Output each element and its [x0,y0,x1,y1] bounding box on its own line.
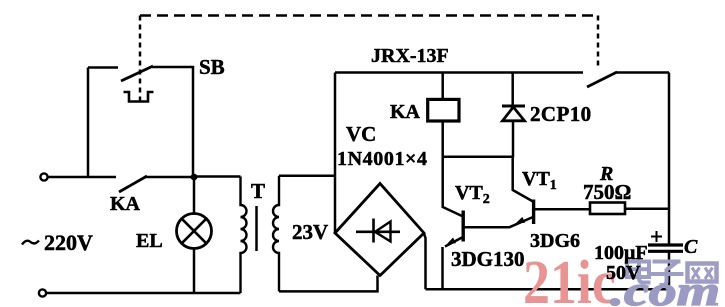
svg-text:100μF: 100μF [594,242,648,264]
wire to VT2 collector [443,157,462,216]
svg-text:C: C [684,236,698,258]
svg-text:220V: 220V [44,230,93,255]
watermark dian zi wang characters [627,256,717,285]
relay coil KA box [428,99,459,121]
watermark 21ic [523,248,616,307]
switch KA contact blade [119,176,147,192]
svg-text:1N4001×4: 1N4001×4 [337,148,428,170]
transformer T core [255,206,258,251]
diode 2CP10 lead upper [511,73,514,106]
rectifier VC inner diode [356,219,400,243]
diode 2CP10 triangle [503,107,525,121]
capacitor C plates [648,243,683,246]
svg-text:EL: EL [136,230,163,252]
wire secondary top to bridge [279,174,335,177]
svg-text:23V: 23V [292,220,328,244]
wire DC plus vertical to top rail [334,73,337,234]
svg-text:SB: SB [199,55,225,79]
wire right rail lower [668,251,671,289]
svg-text:3DG130: 3DG130 [451,247,525,271]
wire dashed link to SB [139,16,142,102]
terminal top AC [40,173,47,180]
wire to VT1 collector [513,158,533,202]
svg-text:T: T [251,179,265,203]
pushbutton cap SB [124,92,154,102]
switch SB blade [121,66,153,81]
svg-text:JRX-13F: JRX-13F [371,45,449,67]
capacitor C plus lead [651,231,662,242]
wire R to right rail [625,207,669,210]
transistor VT2 emitter [445,238,462,247]
wire dashed mechanical link top rail [140,14,598,17]
wire from top AC terminal [47,176,116,179]
wire node collector rail [443,156,513,159]
wire SB to right corner [152,67,193,174]
diode 2CP10 lead lower [512,121,515,158]
svg-text:2CP10: 2CP10 [530,102,592,126]
transistor VT1 base wire to R [535,208,590,211]
svg-text:KA: KA [390,101,421,123]
wire contact to right rail [616,71,669,74]
lamp EL cross [182,219,207,244]
wire KA contact to node A [146,176,194,179]
wire SB branch top left [88,66,118,69]
wire left rail of SB loop [87,68,90,178]
switch relay KA contact blade top right [587,72,617,87]
wire secondary bottom to bridge [279,276,378,292]
svg-text:3DG6: 3DG6 [530,230,580,252]
relay coil KA lead from rail [441,73,444,100]
transformer T secondary winding [273,176,279,292]
transistor VT2 bar [462,211,465,242]
wire VT1 emitter to VT2 base [464,226,510,229]
transistor VT2 emitter arrowhead [447,238,457,245]
wire bottom DC rail [426,288,670,291]
resistor R box [590,203,625,215]
transistor VT1 emitter arrowhead [516,217,526,224]
wire node A to lamp [193,177,196,214]
svg-text:KA: KA [110,193,141,215]
wire right rail upper [668,73,671,245]
transistor VT1 emitter [510,217,534,227]
transformer T primary winding [241,177,247,294]
wire bottom AC line [43,292,241,295]
wire lamp to bottom [193,249,196,293]
relay coil KA lead lower [441,121,444,157]
wire dashed link to relay contact [597,16,600,69]
node A junction dot [191,174,198,181]
rectifier VC bridge diamond [335,184,424,276]
diode 2CP10 cathode bar [502,105,525,108]
svg-text:VC: VC [346,122,376,146]
wire node A to transformer primary [194,175,241,178]
terminal bottom AC [39,289,46,296]
svg-text:50V: 50V [606,262,641,284]
lamp EL circle [177,214,212,249]
wire bridge negative to bottom rail [424,234,426,290]
watermark dot com [610,268,720,307]
transistor VT1 bar [532,200,535,225]
wire VT2 emitter to bottom rail [441,247,444,289]
wire top DC rail [335,71,583,74]
svg-text:750Ω: 750Ω [583,180,631,204]
